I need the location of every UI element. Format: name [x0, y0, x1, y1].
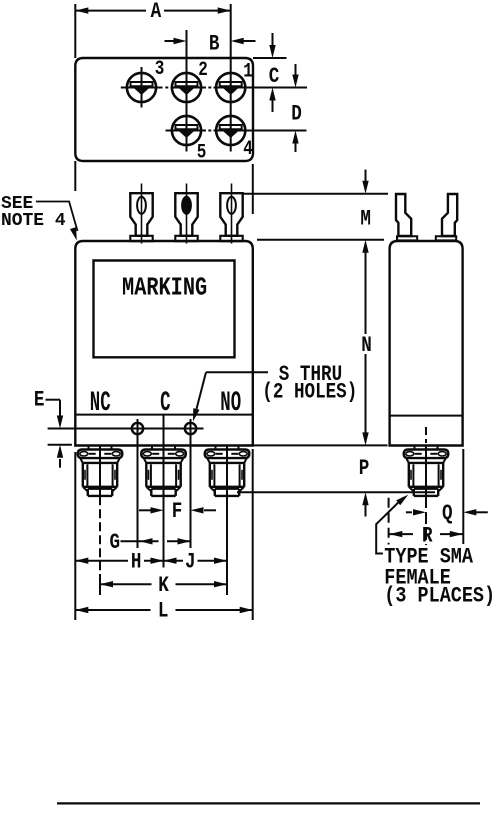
svg-text:1: 1 [243, 61, 253, 83]
extension line from top view to front view right edge [252, 164, 254, 214]
dim E leader and top arrow [46, 399, 61, 401]
dim C top extension line [253, 57, 287, 59]
svg-text:P: P [359, 455, 370, 480]
svg-text:E: E [34, 387, 45, 412]
dim A arrow left [75, 7, 88, 13]
C column centerline inside body [163, 415, 165, 446]
body top reference line [257, 239, 384, 241]
dim F left arrow with tail [139, 509, 151, 511]
dim L line right segment with arrow [176, 609, 253, 611]
svg-text:H: H [131, 549, 142, 574]
dim C arrow top with tail [272, 33, 274, 46]
terminal 3 centerline horizontal [121, 87, 163, 89]
dim A arrow right [218, 7, 231, 13]
mounting hole S right [185, 423, 196, 434]
svg-text:K: K [158, 572, 169, 597]
dim A line right segment [164, 10, 231, 12]
dim Q right arrow with tail [476, 511, 488, 513]
terminal 3 centerline vertical [141, 67, 143, 108]
dim Q left arrow with tail [406, 511, 412, 513]
dim B arrow right with tail [244, 40, 256, 42]
terminal 3 (top view) [127, 73, 156, 102]
dim D arrow bottom with tail [295, 143, 297, 152]
svg-text:MARKING: MARKING [122, 273, 207, 302]
side view lug right [442, 194, 457, 236]
hole S left extension line [137, 437, 139, 548]
column centerline through terminals 2 and 5, up to dim B [186, 30, 188, 152]
svg-text:C: C [160, 387, 170, 418]
side view body centerline [425, 427, 427, 443]
terminal 1 centerline horizontal extended right for C and D dims [214, 87, 308, 89]
svg-text:5: 5 [197, 142, 207, 164]
dim G line right segment [167, 540, 191, 542]
dim B arrow left with tail [165, 40, 175, 42]
svg-text:F: F [172, 498, 183, 523]
svg-text:2: 2 [198, 60, 208, 82]
svg-text:B: B [209, 31, 220, 56]
svg-text:(3 PLACES): (3 PLACES) [384, 584, 495, 609]
dim M top arrow with tail [365, 170, 367, 181]
terminal 5 centerline horizontal [166, 130, 207, 132]
dim H line right segment with arrow [144, 560, 164, 562]
terminal 1 (top view) [216, 73, 245, 102]
dim K line left segment with arrow [100, 583, 152, 585]
dim A line left segment [75, 10, 146, 12]
marking area rectangle [94, 261, 235, 358]
svg-text:G: G [110, 529, 121, 554]
dim L line left segment with arrow [75, 609, 150, 611]
dim R left extension line dashed [388, 498, 390, 545]
dim A extension line left [74, 4, 76, 58]
svg-text:C: C [269, 63, 280, 88]
column centerline through terminals 1 and 4, up to dim A [230, 4, 232, 152]
svg-text:NC: NC [90, 387, 111, 418]
terminal 5 (top view) [172, 116, 201, 145]
connector bottom reference line [237, 491, 435, 493]
terminal 2 centerline horizontal [171, 87, 207, 89]
NO centerline extension below connector [226, 496, 228, 595]
dim N line lower segment with down arrow [365, 354, 367, 433]
terminal 4 (top view) [216, 116, 245, 145]
svg-text:NOTE 4: NOTE 4 [1, 211, 66, 231]
dim P bottom arrow [365, 505, 367, 517]
dim C arrow bottom with tail [272, 100, 274, 112]
svg-text:A: A [151, 0, 162, 24]
SEE NOTE 4 leader [36, 202, 78, 232]
svg-text:(2 HOLES): (2 HOLES) [262, 379, 357, 404]
dim E bottom reference line [48, 444, 72, 446]
body bottom reference line [246, 444, 388, 446]
dim D arrow top with tail [295, 64, 297, 76]
svg-text:L: L [158, 598, 169, 623]
dim N line upper segment with up arrow [365, 252, 367, 334]
SMA connector C (front view) [141, 445, 186, 496]
svg-text:3: 3 [155, 59, 165, 81]
dim H line left segment with arrow [75, 560, 128, 562]
dim G line left segment [121, 540, 159, 542]
hole S right extension line [190, 437, 192, 548]
S THRU leader [206, 371, 268, 373]
row 1 centerline dash a [165, 87, 168, 89]
dim F right arrow with tail [204, 509, 216, 511]
lug top reference line [243, 193, 388, 195]
solder lug terminal left (front view) [141, 184, 143, 244]
SMA connector (side view) [404, 445, 449, 496]
side view body outline [390, 241, 463, 446]
C centerline extension below connector [163, 496, 165, 567]
hole centerline horizontal (E reference) [48, 428, 204, 430]
terminal 4 centerline horizontal extended right for D dim [214, 130, 307, 132]
SMA centerline below side connector [425, 496, 427, 545]
SMA connector NC (front view) [78, 445, 123, 496]
mounting hole S left [132, 423, 143, 434]
side view internal step line [390, 415, 463, 417]
dim E bottom arrow [59, 459, 61, 468]
svg-text:Q: Q [442, 500, 453, 525]
front view body outline [75, 241, 253, 446]
svg-text:NO: NO [220, 387, 241, 418]
TYPE SMA leader [376, 498, 403, 554]
dim R line left with arrow [389, 533, 413, 535]
side body right edge extension line [462, 449, 464, 544]
front view internal step line [75, 414, 253, 416]
svg-text:J: J [185, 549, 196, 574]
top view body outline [75, 58, 253, 161]
solder lug terminal right (front view) [231, 184, 233, 244]
extension line from top view to front view left edge [74, 161, 76, 191]
dim J line right segment with arrow [198, 560, 228, 562]
svg-text:4: 4 [243, 139, 253, 161]
svg-text:M: M [360, 206, 371, 231]
dim J line left segment with arrow [164, 560, 184, 562]
row 1 centerline dash b [208, 87, 211, 89]
bottom horizontal rule [57, 802, 480, 804]
body left edge extension line to L dim [74, 452, 76, 620]
SMA connector NO (front view) [205, 445, 250, 496]
NC centerline extension below connector [99, 496, 101, 572]
side view lug left [396, 194, 411, 236]
svg-text:D: D [291, 101, 302, 126]
svg-text:N: N [361, 332, 372, 357]
row 2 centerline dash [208, 130, 211, 132]
svg-text:R: R [422, 523, 433, 548]
terminal 2 (top view) [172, 73, 201, 102]
body right edge extension line to L dim [252, 449, 254, 620]
dim K line right segment with arrow [176, 583, 228, 585]
dim R line right with arrow [440, 533, 463, 535]
solder lug terminal center (front view) [186, 184, 188, 244]
